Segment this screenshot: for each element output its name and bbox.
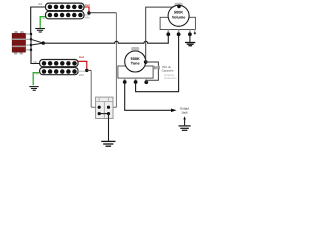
wire switch diagonal lug2 to common — [31, 39, 43, 43]
wire capacitor bottom lead to tone lug3 — [146, 69, 158, 82]
output jack ground arrow — [183, 116, 186, 119]
volume pot casing circle — [168, 5, 189, 26]
volume pot lug solder dots — [166, 32, 191, 36]
wire neck black hot to switch lug1 — [31, 7, 46, 34]
svg-text:Wht: Wht — [79, 73, 84, 77]
switch SW1 contact strip A — [12, 39, 25, 41]
bridge pickup PU2 coil1 — [40, 60, 79, 67]
svg-text:500K: 500K — [131, 57, 140, 61]
svg-text:Wht: Wht — [85, 15, 90, 19]
tone pot shaft — [131, 47, 139, 51]
wire neck hot horizontal run — [89, 12, 116, 14]
wire switch common to volume lug1 (with 2 hops) — [43, 34, 168, 43]
junction neck red+white — [87, 11, 90, 14]
svg-text:(Irrelevant): (Irrelevant) — [164, 77, 177, 80]
neck pickup pole pieces row1 — [48, 5, 83, 10]
wire bridge green — [33, 73, 39, 86]
wire neck red — [84, 7, 89, 13]
svg-text:Volume: Volume — [172, 15, 185, 19]
volume pot shaft — [175, 3, 183, 7]
svg-text:500K: 500K — [174, 11, 183, 15]
ground G1 (neck green) — [35, 29, 45, 33]
switch SW1 lug solder dots — [30, 33, 32, 51]
switch SW1 contact strip B — [12, 46, 25, 48]
junction switch common — [42, 41, 45, 44]
split switch SW2 top stubs — [99, 98, 108, 100]
bridge pickup PU2 coil2 — [40, 68, 79, 75]
junction bridge red+white — [85, 69, 88, 72]
wire capacitor top lead — [146, 62, 159, 66]
switch SW1 body — [12, 33, 25, 52]
capacitor C1 body — [153, 66, 160, 69]
neck pickup PU1 coil2 — [46, 11, 85, 18]
tone pot lug solder dots — [123, 80, 148, 84]
neck pickup pole pieces row2 — [48, 13, 83, 17]
split switch SW2 inner lines — [96, 102, 112, 118]
wire tone lug1 to output — [125, 82, 172, 110]
wire neck white — [84, 13, 89, 15]
bridge pickup pole pieces row2 — [42, 69, 77, 74]
wire bridge hot to split switch — [87, 69, 91, 71]
wire tone lug2 to volume lug2 — [136, 34, 179, 91]
wire tone casing up to volume casing — [146, 7, 173, 62]
tone pot casing circle — [125, 51, 146, 72]
switch SW1 mounting tabs — [14, 31, 24, 55]
svg-text:Blk: Blk — [38, 2, 42, 6]
wire switch lug1 down to bridge black — [31, 34, 40, 64]
volume pot lug stubs — [168, 30, 190, 33]
svg-text:Red: Red — [85, 3, 91, 7]
ground G3 (split switch) — [101, 141, 115, 146]
svg-text:Capacitor: Capacitor — [162, 68, 174, 72]
svg-text:Tone: Tone — [131, 62, 140, 66]
wire switch diagonal lug3 to common — [31, 43, 43, 45]
junction tone casing (right edge) — [144, 60, 148, 64]
wire neck hot vertical drop to split switch — [109, 13, 117, 108]
wire bridge red — [78, 61, 87, 70]
ground G4 (output jack) — [179, 126, 191, 130]
split switch SW2 solder dots — [98, 106, 111, 116]
volume pot base plate — [160, 17, 195, 29]
switch SW1 lug stubs — [26, 34, 32, 50]
tone pot lug stubs — [125, 78, 147, 81]
split switch SW2 body — [96, 97, 113, 118]
volume pot casing top dot — [177, 5, 181, 9]
tone pot base plate — [118, 66, 153, 78]
output arrow head — [171, 109, 177, 113]
wire split switch to ground — [108, 114, 110, 141]
ground G2 (bridge green) — [29, 87, 38, 91]
ground G5 (volume) — [185, 43, 195, 46]
svg-text:Red: Red — [79, 55, 85, 59]
bridge pickup pole pieces row1 — [42, 61, 77, 66]
wire volume lug3 to ground — [189, 34, 191, 42]
split switch SW2 jumper wire — [99, 113, 108, 115]
wire jack ground stem — [184, 119, 186, 126]
svg-text:Grn: Grn — [35, 73, 40, 76]
neck pickup PU1 coil1 — [46, 3, 85, 11]
volume pot casing tab — [194, 30, 196, 33]
svg-text:Jack: Jack — [181, 110, 188, 114]
wire bridge white — [78, 70, 87, 72]
wire neck green — [40, 17, 45, 28]
